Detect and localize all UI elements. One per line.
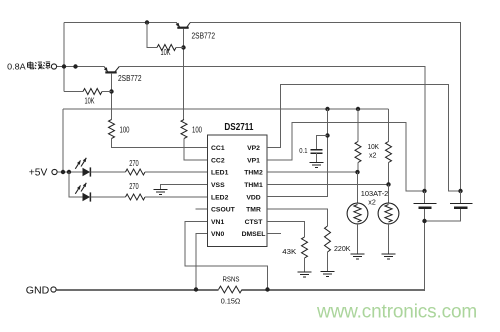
thermistor RT2 103AT-2 <box>378 203 399 224</box>
wire GND rail right to battery minus <box>242 221 425 291</box>
pin label DMSEL <box>242 231 266 238</box>
node THM1/RT2 <box>386 182 390 186</box>
svg-text:0.8A: 0.8A <box>7 62 26 72</box>
label R8 220K <box>334 244 351 253</box>
capacitor C1 0.1 <box>311 150 323 163</box>
pin label LED2 <box>211 194 229 201</box>
resistor R5 270 <box>126 169 146 175</box>
label Q2 2SB772 <box>118 74 142 83</box>
wire left vertical x=64 <box>63 23 65 92</box>
label R1 10K <box>161 48 171 57</box>
IC U1 DS2711 body <box>208 135 268 247</box>
label Q1 2SB772 <box>192 32 216 41</box>
wire 10K pullup 2 bottom leg <box>388 163 390 185</box>
svg-text:VN1: VN1 <box>211 219 224 226</box>
label GND <box>26 285 50 297</box>
svg-text:43K: 43K <box>282 247 296 256</box>
svg-text:GND: GND <box>26 285 50 297</box>
node GND/VN0 <box>194 287 198 291</box>
label R2 10K <box>85 97 95 106</box>
svg-text:TMR: TMR <box>246 207 261 214</box>
wire RT1 to ground <box>357 224 359 254</box>
thermistor RT1 103AT-2 <box>347 203 368 224</box>
wire R6 to LED2 pin <box>145 196 208 198</box>
svg-text:THM2: THM2 <box>244 170 263 177</box>
pin label CC2 <box>211 157 225 164</box>
wire Q1 base down to 100ohm R3 <box>183 29 185 120</box>
wire THM1 to thermistor RT2 <box>267 183 389 185</box>
wire CSOUT stub (n.c.) <box>196 208 208 210</box>
pin label VSS <box>211 182 225 189</box>
node +5V junctions <box>61 170 71 174</box>
battery BT1 <box>414 191 437 221</box>
node VDD riser / 0.1uF cap <box>325 133 329 137</box>
terminal GND <box>51 287 56 292</box>
pin label VN0 <box>211 231 224 238</box>
pin label LED1 <box>211 170 229 177</box>
wire R4 bottom to CC1 pin <box>112 139 208 148</box>
wire +5V drop to LED2 <box>69 172 83 197</box>
node Q1 base / 10K R1 junction <box>181 45 185 49</box>
wire +5V riser x=63 <box>62 109 64 172</box>
node battery minus junction <box>422 219 426 223</box>
svg-text:270: 270 <box>129 159 139 168</box>
pin label VDD <box>246 194 260 201</box>
transistor Q2 2SB772 (on 0.8A rail) <box>104 67 119 73</box>
svg-text:0.1: 0.1 <box>299 146 307 155</box>
wire 10K pullup 1 top leg <box>357 109 359 142</box>
wire top rail (Q1 emitter feed) <box>64 22 176 24</box>
label dian-liu-yuan (current source, drawn glyphs) <box>28 62 51 70</box>
node VDD rail / bypass branch <box>325 107 329 111</box>
ground C1 <box>310 163 324 168</box>
ground RT1 <box>351 254 365 259</box>
wire GND rail left <box>57 289 219 291</box>
resistor R8 220K <box>325 226 331 252</box>
node VDD rail / 10K pullup 1 <box>356 107 360 111</box>
watermark www.cntronics.com <box>316 302 477 323</box>
pin label VP2 <box>247 145 260 152</box>
svg-text:THM1: THM1 <box>244 182 263 189</box>
svg-text:2SB772: 2SB772 <box>118 74 142 83</box>
svg-text:x2: x2 <box>368 198 376 207</box>
wire Q2 collector to battery B1+ (drop at x=425) <box>119 67 425 192</box>
svg-text:RSNS: RSNS <box>223 274 240 283</box>
wire LED2 to 270 R6 <box>91 196 126 198</box>
wire THM2 to thermistor RT1 <box>267 171 358 173</box>
pin label CTST <box>245 219 264 226</box>
resistor R10 10K pullup 2 <box>386 142 392 163</box>
ground VSS <box>154 190 168 195</box>
svg-text:www.cntronics.com: www.cntronics.com <box>316 302 477 323</box>
svg-text:10K: 10K <box>85 97 95 106</box>
resistor R1 10K (Q1 b-e) <box>157 45 176 51</box>
wire RT1 top lead <box>357 172 359 203</box>
battery BT2 <box>425 191 473 221</box>
svg-text:DMSEL: DMSEL <box>242 231 266 238</box>
svg-text:CSOUT: CSOUT <box>211 207 236 214</box>
wire DMSEL stub (n.c.) <box>267 233 281 235</box>
wire RT2 top lead <box>388 184 390 203</box>
label 0.15ohm <box>221 297 241 306</box>
transistor Q1 2SB772 (top) <box>176 23 191 28</box>
svg-text:VSS: VSS <box>211 182 225 189</box>
label C1 0.1 <box>299 146 307 155</box>
wire 10K R1 right leg <box>176 47 184 49</box>
LED D2 <box>75 183 90 202</box>
resistor RSNS 0.15ohm <box>219 286 243 293</box>
pin label VP1 <box>247 157 260 164</box>
svg-text:LED2: LED2 <box>211 194 229 201</box>
pin label CSOUT <box>211 207 236 214</box>
wire VN1 to RSNS right side <box>185 221 268 289</box>
svg-text:VDD: VDD <box>246 194 260 201</box>
wire LED1 to 270 R5 <box>91 171 126 173</box>
svg-text:LED1: LED1 <box>211 170 229 177</box>
node B2+ junction <box>458 189 462 193</box>
pin label VN1 <box>211 219 224 226</box>
resistor R2 10K (Q2 b-e) <box>83 89 102 95</box>
wire 0.1uF cap branch <box>317 136 328 150</box>
pin label CC1 <box>211 145 225 152</box>
wire 10K pullup 1 bottom leg <box>357 163 359 173</box>
svg-text:CC1: CC1 <box>211 145 225 152</box>
svg-text:CTST: CTST <box>245 219 264 226</box>
svg-text:100: 100 <box>120 125 130 134</box>
node top rail / 10K R1 <box>145 20 149 24</box>
wire 10K R2 right leg <box>102 91 112 93</box>
terminal 0.8A current source <box>51 64 56 69</box>
svg-text:x2: x2 <box>369 151 377 160</box>
wire 10K R2 left leg <box>64 91 83 93</box>
node THM2/RT1 <box>355 170 359 174</box>
wire VN0 to RSNS left side <box>196 234 208 290</box>
wire TMR to 220K <box>267 209 328 226</box>
label RT 103AT-2 <box>361 189 389 206</box>
svg-text:10K: 10K <box>368 142 380 151</box>
ground RT2 <box>382 254 396 259</box>
wire VSS pin to ground <box>161 184 208 189</box>
pin label THM1 <box>244 182 263 189</box>
terminal +5V <box>52 169 57 174</box>
wire +5V to LED1 <box>58 171 83 173</box>
resistor R9 10K pullup 1 <box>355 142 361 163</box>
label R3 100 <box>192 125 202 134</box>
wire 10K pullup 2 top leg <box>388 109 390 142</box>
svg-text:0.15Ω: 0.15Ω <box>221 297 241 306</box>
wire VP2 to battery B2+ <box>267 85 461 192</box>
resistor R7 43K <box>302 237 308 258</box>
wire VDD pin riser <box>267 109 328 197</box>
svg-text:2SB772: 2SB772 <box>192 32 216 41</box>
label U1 DS2711 <box>224 122 253 133</box>
svg-text:220K: 220K <box>334 244 351 253</box>
label 0.8A <box>7 62 26 72</box>
wire RT2 to ground <box>388 224 390 254</box>
label R7 43K <box>282 247 296 256</box>
label R6 270 <box>129 182 139 191</box>
wire 0.8A source to Q2 emitter <box>57 66 104 68</box>
pin label THM2 <box>244 170 263 177</box>
wire Q1 collector to battery B2+ (drop at x=460.5) <box>190 23 460 192</box>
label R9/R10 10K x2 <box>368 142 380 160</box>
wire Q2 base down to 100ohm R4 <box>111 73 113 120</box>
svg-text:CC2: CC2 <box>211 157 225 164</box>
svg-text:270: 270 <box>129 182 139 191</box>
svg-text:VN0: VN0 <box>211 231 224 238</box>
wire 10K R1 left leg <box>147 23 157 48</box>
wire VP1 to battery B1+ <box>267 123 425 192</box>
label +5V <box>29 167 48 179</box>
wire +5V/VDD rail y=109 <box>63 108 389 110</box>
svg-text:VP1: VP1 <box>247 157 260 164</box>
resistor R4 100 (CC1) <box>109 120 115 139</box>
wire 43K to ground <box>304 258 306 272</box>
wire CTST to 43K <box>267 221 305 237</box>
svg-text:+5V: +5V <box>29 167 48 179</box>
wire 220K to ground <box>327 252 329 271</box>
ground 220K <box>321 272 335 277</box>
label R5 270 <box>129 159 139 168</box>
svg-text:10K: 10K <box>161 48 171 57</box>
node Q2 base / 10K R2 junction <box>109 89 113 93</box>
svg-text:DS2711: DS2711 <box>224 122 253 133</box>
node B1+ junction <box>422 189 426 193</box>
wire R3 bottom to CC2 pin <box>184 139 208 160</box>
label R4 100 <box>120 125 130 134</box>
LED D1 <box>75 158 90 177</box>
label RSNS <box>223 274 240 283</box>
wire R5 to LED1 pin <box>145 171 208 173</box>
node GND/VN1 <box>265 287 269 291</box>
ground 43K <box>298 272 312 277</box>
pin label TMR <box>246 207 261 214</box>
node 0.8A rail junctions <box>62 64 78 68</box>
svg-text:100: 100 <box>192 125 202 134</box>
resistor R6 270 <box>126 194 146 200</box>
resistor R3 100 (CC2) <box>181 120 187 139</box>
svg-text:VP2: VP2 <box>247 145 260 152</box>
